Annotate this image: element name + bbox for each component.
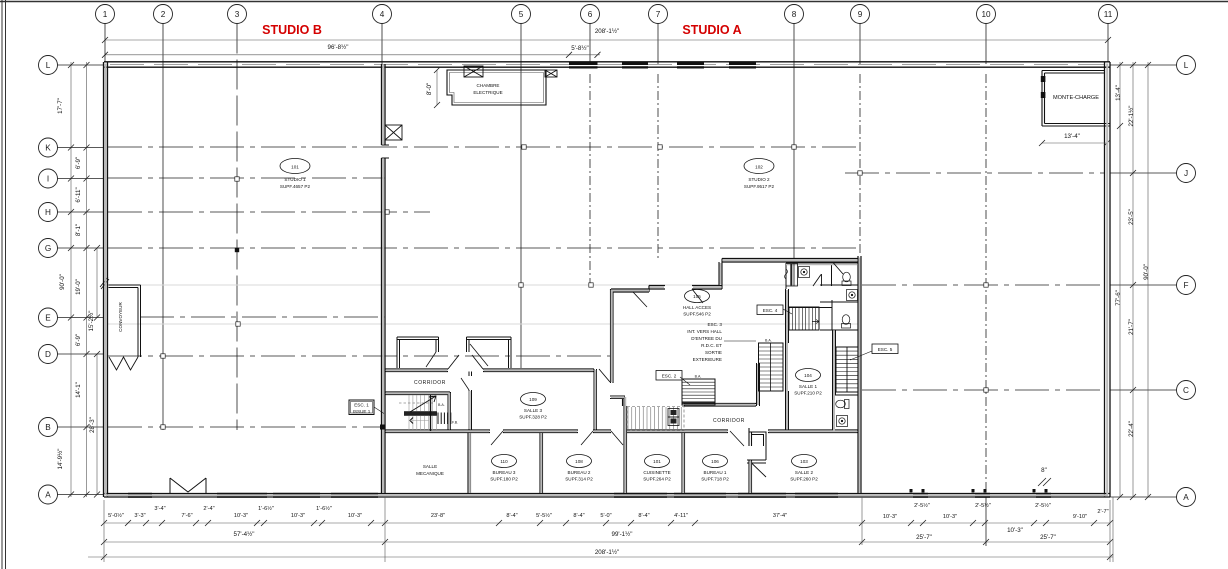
- svg-text:SUPF.4657 P2: SUPF.4657 P2: [280, 184, 311, 189]
- south wall: [104, 494, 1110, 498]
- svg-text:INT. VERS HALL: INT. VERS HALL: [687, 329, 722, 334]
- south wall mullion squares: [910, 489, 1048, 493]
- svg-text:F.B.: F.B.: [452, 421, 458, 425]
- wall x833 room104 right: [833, 330, 836, 432]
- grid node filled at (237,250): [235, 248, 239, 252]
- svg-text:CORRIDOR: CORRIDOR: [713, 418, 745, 424]
- svg-text:10'-3": 10'-3": [883, 514, 897, 520]
- svg-text:HALL ACCES: HALL ACCES: [683, 305, 711, 310]
- svg-text:B.A.: B.A.: [765, 339, 772, 343]
- bottom extension verticals: [104, 497, 1113, 562]
- svg-text:2: 2: [161, 10, 166, 19]
- svg-text:5'-0": 5'-0": [600, 513, 611, 519]
- wc partition stub and swings: [813, 263, 843, 287]
- grid line col at x=794: [793, 24, 795, 259]
- svg-text:1'-6½": 1'-6½": [258, 505, 274, 512]
- svg-text:14'-9½": 14'-9½": [57, 449, 64, 470]
- monte-charge door jambs: [1041, 76, 1046, 82]
- grid node at (163,356): [161, 354, 165, 358]
- grid bubble row G left: [39, 239, 58, 258]
- closet room 1 above corridor: [397, 337, 439, 368]
- stair ESC.2 label box: [656, 371, 682, 381]
- stair ESC.5 label box: [872, 344, 898, 354]
- svg-text:106: 106: [711, 459, 719, 464]
- stair ESC.4 label box: [757, 305, 783, 315]
- svg-text:ELECTRIQUE: ELECTRIQUE: [473, 90, 502, 95]
- grid line row at y=147: [108, 146, 860, 148]
- svg-text:2'-7": 2'-7": [1097, 509, 1108, 515]
- svg-text:R.D.C. ET: R.D.C. ET: [701, 343, 722, 348]
- svg-text:101: 101: [291, 165, 299, 170]
- vestibule door leaf: [752, 463, 767, 477]
- north wall centerline dashes: [110, 64, 1104, 66]
- row leader I left: [58, 178, 105, 180]
- hatched box on col-4 wall: [385, 125, 402, 140]
- svg-text:90'-0": 90'-0": [1143, 264, 1150, 280]
- svg-text:15'-2½": 15'-2½": [88, 311, 95, 332]
- grid line col at x=986: [985, 494, 987, 546]
- svg-text:5'-0½": 5'-0½": [108, 512, 124, 519]
- row leader D left: [58, 353, 105, 355]
- east wall: [1105, 62, 1111, 497]
- corridor north double door leaves: [448, 355, 483, 369]
- svg-text:21'-7": 21'-7": [1128, 319, 1135, 335]
- grid line row at y=317: [140, 316, 385, 318]
- row leader A left: [58, 494, 105, 496]
- dim 8-0 vertical: [436, 70, 438, 105]
- room 109 salle 3: [521, 393, 546, 406]
- svg-text:STUDIO 1: STUDIO 1: [284, 177, 306, 182]
- grid line col at x=382: [381, 24, 383, 65]
- grid node at (986,285): [984, 283, 988, 287]
- room 101 cuisinette: [645, 455, 670, 468]
- grid line row at y=212: [108, 211, 430, 213]
- dim tick (105,40): [102, 37, 108, 43]
- svg-text:13'-4": 13'-4": [1064, 133, 1080, 140]
- stair ESC.1 upper flight light treads: [409, 395, 436, 430]
- stair ESC.1 landing bar: [404, 411, 437, 416]
- hall west lower wall x786: [786, 289, 789, 430]
- svg-text:SALLE 1: SALLE 1: [799, 384, 818, 389]
- svg-text:SALLE: SALLE: [423, 464, 437, 469]
- svg-text:BUREAU 3: BUREAU 3: [493, 470, 516, 475]
- grid bubble row F right: [1177, 276, 1196, 295]
- svg-text:10'-3": 10'-3": [234, 513, 248, 519]
- svg-text:19'-0": 19'-0": [75, 279, 82, 295]
- chambre hatched box right: [545, 70, 557, 77]
- svg-text:8: 8: [792, 10, 797, 19]
- svg-text:CHAMBRE: CHAMBRE: [477, 83, 500, 88]
- svg-text:D'ENTREE DU: D'ENTREE DU: [691, 336, 722, 341]
- wall cores gray: [106, 64, 1109, 496]
- row leader E left: [58, 317, 105, 319]
- col-4 wall jog at K: [382, 145, 390, 158]
- svg-text:SUPF.718 P2: SUPF.718 P2: [701, 477, 729, 482]
- row leader L left: [58, 64, 105, 66]
- svg-text:37'-4": 37'-4": [773, 513, 787, 519]
- svg-text:17'-7": 17'-7": [57, 98, 64, 114]
- grid bubble column 1: [96, 5, 115, 24]
- north wall window panels: [569, 62, 756, 69]
- svg-text:10'-3": 10'-3": [291, 513, 305, 519]
- south wall window bands: [128, 493, 1051, 498]
- vestibule box in corridor: [747, 432, 766, 463]
- grid line col at x=986: [985, 24, 987, 65]
- svg-text:STUDIO 2: STUDIO 2: [748, 177, 770, 182]
- svg-text:105: 105: [693, 294, 701, 299]
- monte-charge dim 13-4: [1042, 142, 1107, 144]
- grid bubble column 9: [851, 5, 870, 24]
- svg-text:J: J: [1184, 169, 1188, 178]
- grid line col at x=860: [859, 74, 861, 256]
- stair ESC.3: [759, 343, 784, 391]
- monte-charge room: [1042, 71, 1110, 127]
- svg-text:ESC. 4: ESC. 4: [763, 308, 778, 313]
- svg-text:23'-5": 23'-5": [1128, 209, 1135, 225]
- svg-text:208'-1½": 208'-1½": [595, 28, 619, 35]
- svg-text:BUREAU 2: BUREAU 2: [568, 470, 591, 475]
- hall inner door leaf near north wall: [633, 292, 647, 307]
- svg-text:109: 109: [529, 397, 537, 402]
- south double door V: [170, 478, 206, 494]
- svg-text:SALLE 2: SALLE 2: [795, 470, 814, 475]
- grid node at (860,173): [858, 171, 862, 175]
- grid bubble row L left: [39, 56, 58, 75]
- svg-text:7'-6": 7'-6": [181, 513, 192, 519]
- svg-text:8'-4": 8'-4": [506, 513, 517, 519]
- stair ESC.1 lower flight dark treads: [438, 413, 451, 425]
- svg-text:8'-4": 8'-4": [638, 513, 649, 519]
- corridor south wall (left) W6: [385, 392, 450, 395]
- toilet wc3: [842, 315, 851, 328]
- grid line col at x=658: [657, 24, 659, 65]
- wall x758 stair to corridor: [757, 363, 760, 406]
- svg-text:10: 10: [981, 10, 991, 19]
- shower wc1: [786, 264, 798, 287]
- svg-text:EXTERIEURE: EXTERIEURE: [693, 357, 722, 362]
- svg-text:2'-5½": 2'-5½": [914, 502, 930, 509]
- svg-text:SUPF.264 P2: SUPF.264 P2: [643, 477, 671, 482]
- svg-text:10'-3": 10'-3": [1007, 527, 1023, 534]
- grid bubble row K left: [39, 138, 58, 157]
- grid bubble column 5: [512, 5, 531, 24]
- svg-text:7: 7: [656, 10, 661, 19]
- grid bubble column 4: [373, 5, 392, 24]
- grid bubble row A left: [39, 485, 58, 504]
- grid bubble row I left: [39, 169, 58, 188]
- sink wc1: [799, 267, 810, 278]
- grid line row at y=285: [862, 284, 1104, 286]
- room 104 salle 1: [796, 369, 821, 382]
- svg-text:SUPF.210 P2: SUPF.210 P2: [794, 391, 822, 396]
- bottom dim row2 line: [104, 541, 1110, 543]
- hall entry door leaf: [692, 289, 703, 303]
- svg-text:A: A: [45, 490, 51, 499]
- grid bubble column 3: [228, 5, 247, 24]
- svg-text:3: 3: [235, 10, 240, 19]
- svg-text:10'-3": 10'-3": [348, 513, 362, 519]
- svg-text:1: 1: [103, 10, 108, 19]
- svg-text:23'-8": 23'-8": [431, 513, 445, 519]
- grid line col at x=590: [589, 74, 591, 286]
- svg-text:5: 5: [519, 10, 524, 19]
- hall west L corner to corridor: [610, 396, 625, 406]
- grid line col at x=590: [589, 24, 591, 65]
- grid bubble column 8: [785, 5, 804, 24]
- svg-text:8'-0": 8'-0": [426, 83, 433, 95]
- svg-text:10'-3": 10'-3": [943, 514, 957, 520]
- svg-text:L: L: [46, 61, 51, 70]
- grid bubble row J right: [1177, 164, 1196, 183]
- bureau1-salle2 divider with door: [749, 428, 752, 494]
- convoyeur room: [109, 285, 141, 357]
- grid bubble row L right: [1177, 56, 1196, 75]
- svg-text:H: H: [45, 208, 51, 217]
- grid bubble row E left: [39, 308, 58, 327]
- grid bubble row A right: [1177, 488, 1196, 507]
- sheet border left double line: [2, 0, 6, 569]
- grid node at (521,285): [519, 283, 523, 287]
- svg-text:99'-1½": 99'-1½": [612, 531, 633, 538]
- svg-text:96'-8½": 96'-8½": [328, 44, 349, 51]
- grid line col at x=237: [236, 24, 238, 431]
- stair ESC.1 label box: [349, 400, 374, 415]
- grid node at (591,285): [589, 283, 593, 287]
- svg-text:STUDIO A: STUDIO A: [682, 23, 741, 37]
- esc4 side wall and landing: [789, 300, 832, 330]
- svg-text:6'-9": 6'-9": [75, 334, 82, 346]
- row leader F right: [1110, 284, 1177, 286]
- sink wc2: [847, 290, 858, 301]
- svg-text:SUPF.9517 P2: SUPF.9517 P2: [744, 184, 775, 189]
- svg-text:B.A.: B.A.: [438, 403, 445, 407]
- room row top wall H3: [385, 430, 861, 433]
- under-stair dashed area near ESC.1: [628, 407, 681, 429]
- grid bubble row C right: [1177, 381, 1196, 400]
- salle 3 west wall: [469, 372, 472, 431]
- salle 3 east wall: [594, 369, 597, 430]
- svg-text:101: 101: [653, 459, 661, 464]
- top dimension line 208 ft: [105, 39, 1108, 41]
- grid bubble row D left: [39, 345, 58, 364]
- corridor north wall (left) W5: [385, 369, 594, 372]
- grid bubble column 2: [154, 5, 173, 24]
- sheet border top line: [0, 1, 1228, 3]
- grid line row at y=178: [108, 177, 385, 179]
- svg-text:6: 6: [588, 10, 593, 19]
- svg-text:SUPF.546 P2: SUPF.546 P2: [683, 312, 711, 317]
- svg-text:ISSUE 1: ISSUE 1: [353, 409, 371, 414]
- grid node at (524,147): [522, 145, 526, 149]
- hall north wall stepped: [611, 286, 722, 293]
- toilet wc4: [836, 400, 849, 409]
- svg-text:SALLE 3: SALLE 3: [524, 408, 543, 413]
- grid bubble row B left: [39, 418, 58, 437]
- grid line col at x=1108: [1107, 24, 1109, 63]
- svg-text:ESC. 2: ESC. 2: [662, 374, 677, 379]
- appliance boxes: [668, 409, 679, 418]
- row leader K left: [58, 147, 105, 149]
- dim tick (1108,40): [1105, 37, 1111, 43]
- svg-text:SUPF.314 P2: SUPF.314 P2: [565, 477, 593, 482]
- svg-text:F: F: [1183, 281, 1188, 290]
- grid line row at y=390: [862, 389, 1104, 391]
- row leader H left: [58, 211, 105, 213]
- grid line col at x=163: [162, 24, 164, 431]
- closet room 2 above corridor: [467, 337, 512, 368]
- room 106 bureau 1: [703, 455, 728, 468]
- svg-text:A: A: [1183, 493, 1189, 502]
- grid line col at x=105: [104, 24, 106, 63]
- svg-text:13'-4": 13'-4": [1115, 85, 1122, 101]
- svg-text:102: 102: [755, 165, 763, 170]
- stair ESC.4: [789, 307, 819, 330]
- grid line row at y=248: [108, 247, 860, 249]
- right dim vertical lines: [1119, 62, 1121, 497]
- stair ESC.1 up arrow: [410, 396, 436, 412]
- svg-text:MECANIQUE: MECANIQUE: [416, 471, 444, 476]
- dim tick (105,54.8): [102, 52, 108, 58]
- svg-text:BUREAU 1: BUREAU 1: [704, 470, 727, 475]
- grid line col at x=860: [859, 24, 861, 65]
- row leader B left: [58, 426, 105, 428]
- svg-text:B.A.: B.A.: [695, 375, 702, 379]
- svg-text:208'-1½": 208'-1½": [595, 549, 619, 556]
- svg-text:2'-5½": 2'-5½": [975, 502, 991, 509]
- svg-text:CONVOYEUR: CONVOYEUR: [118, 302, 123, 332]
- svg-text:14'-1": 14'-1": [75, 382, 82, 398]
- svg-text:8'-1": 8'-1": [75, 224, 82, 236]
- grid node at (238,324): [236, 322, 240, 326]
- svg-text:ESC. 5: ESC. 5: [878, 347, 893, 352]
- salle 3 west door leaf: [461, 378, 469, 390]
- bottom dim row1 line: [104, 522, 1110, 524]
- grid line col at x=521: [520, 24, 522, 369]
- svg-text:22'-1½": 22'-1½": [1128, 106, 1135, 127]
- svg-text:STUDIO B: STUDIO B: [262, 23, 322, 37]
- col-4 interior wall: [382, 64, 386, 494]
- stair ESC.5: [836, 347, 858, 392]
- room 110 bureau 3: [492, 455, 517, 468]
- room 101 studio 1: [280, 159, 310, 174]
- svg-text:E: E: [45, 313, 51, 322]
- svg-text:90'-0": 90'-0": [59, 274, 66, 290]
- row leader G left: [58, 247, 105, 249]
- svg-text:4'-11": 4'-11": [674, 513, 688, 519]
- grid bubble column 6: [581, 5, 600, 24]
- svg-text:D: D: [45, 350, 51, 359]
- svg-text:B: B: [45, 423, 51, 432]
- block east wall: [858, 256, 861, 494]
- svg-text:103: 103: [800, 459, 808, 464]
- row leader J right: [1110, 172, 1177, 174]
- grid line col at x=986: [985, 74, 987, 494]
- svg-text:4: 4: [380, 10, 385, 19]
- west wall break mark: [100, 277, 109, 289]
- svg-text:3'-3": 3'-3": [134, 513, 145, 519]
- svg-text:22'-4": 22'-4": [1128, 421, 1135, 437]
- sink wc4: [837, 416, 848, 427]
- grid node at (387,212): [385, 210, 389, 214]
- light joist line below E: [108, 323, 858, 325]
- svg-text:SUPF.260 P2: SUPF.260 P2: [790, 477, 818, 482]
- svg-text:MONTE-CHARGE: MONTE-CHARGE: [1053, 95, 1099, 101]
- grid bubble column 7: [649, 5, 668, 24]
- grid node at (237,179): [235, 177, 239, 181]
- room 105 hall acces: [685, 290, 710, 303]
- svg-text:L: L: [1184, 61, 1189, 70]
- room 102 studio 2: [744, 159, 774, 174]
- hall step wall at x722: [719, 259, 722, 290]
- svg-text:5'-8½": 5'-8½": [571, 45, 588, 52]
- svg-text:104: 104: [804, 373, 812, 378]
- svg-text:CUISINETTE: CUISINETTE: [643, 470, 670, 475]
- svg-text:110: 110: [500, 459, 508, 464]
- svg-text:G: G: [45, 244, 51, 253]
- svg-text:SUPF.180 P2: SUPF.180 P2: [490, 477, 518, 482]
- row leader A right: [1110, 496, 1177, 498]
- hall west door leaf: [599, 369, 610, 382]
- grid line row at y=427: [108, 426, 381, 428]
- grid line row at y=356: [108, 355, 610, 357]
- row leader L right: [1110, 64, 1177, 66]
- room 108 bureau 2: [567, 455, 592, 468]
- top dimension line 96 ft: [105, 54, 600, 56]
- svg-text:25'-7": 25'-7": [1040, 534, 1056, 541]
- svg-text:77'-6": 77'-6": [1115, 290, 1122, 306]
- grid bubble column 10: [977, 5, 996, 24]
- svg-text:108: 108: [575, 459, 583, 464]
- chambre hatched box left: [464, 66, 483, 77]
- svg-text:1'-6½": 1'-6½": [316, 505, 332, 512]
- north wall: [104, 62, 1110, 67]
- grid node at (660,147): [658, 145, 662, 149]
- grid bubble row H left: [39, 203, 58, 222]
- grid bubble column 11: [1099, 5, 1118, 24]
- stair ESC.2: [682, 379, 715, 405]
- room 103 salle 2: [792, 455, 817, 468]
- svg-text:28'-3": 28'-3": [89, 417, 96, 433]
- svg-text:6'-11": 6'-11": [75, 187, 82, 202]
- wc walls top cluster: [786, 263, 858, 289]
- svg-text:2'-4": 2'-4": [203, 506, 214, 512]
- svg-text:I: I: [47, 174, 49, 183]
- svg-text:11: 11: [1104, 10, 1113, 19]
- junction square at B row on col4 wall: [380, 425, 386, 430]
- grid line col at x=658: [657, 74, 659, 260]
- svg-text:57'-4½": 57'-4½": [234, 531, 255, 538]
- chambre electrique room: [447, 70, 546, 105]
- stair ESC.1 east wall: [448, 392, 451, 430]
- grid line row at y=173: [845, 172, 1104, 174]
- bottom dim row3 line: [88, 556, 1113, 558]
- svg-text:9: 9: [858, 10, 863, 19]
- svg-text:25'-7": 25'-7": [916, 534, 932, 541]
- grid node at (794,147): [792, 145, 796, 149]
- stair ESC.1 flight divider: [430, 395, 432, 431]
- svg-text:CORRIDOR: CORRIDOR: [414, 380, 446, 386]
- room door leaves on H3: [491, 431, 744, 446]
- svg-text:SUPF.328 P2: SUPF.328 P2: [519, 415, 547, 420]
- svg-text:SORTIE: SORTIE: [705, 350, 722, 355]
- svg-text:3'-4": 3'-4": [154, 506, 165, 512]
- svg-text:2'-5½": 2'-5½": [1035, 502, 1051, 509]
- corridor north wall (right): [684, 404, 756, 407]
- dim tick (597.5,54.8): [595, 52, 601, 58]
- stair ESC.1 down arrow: [410, 418, 413, 424]
- left dim vertical lines: [70, 62, 72, 497]
- light joist line row F: [108, 284, 858, 286]
